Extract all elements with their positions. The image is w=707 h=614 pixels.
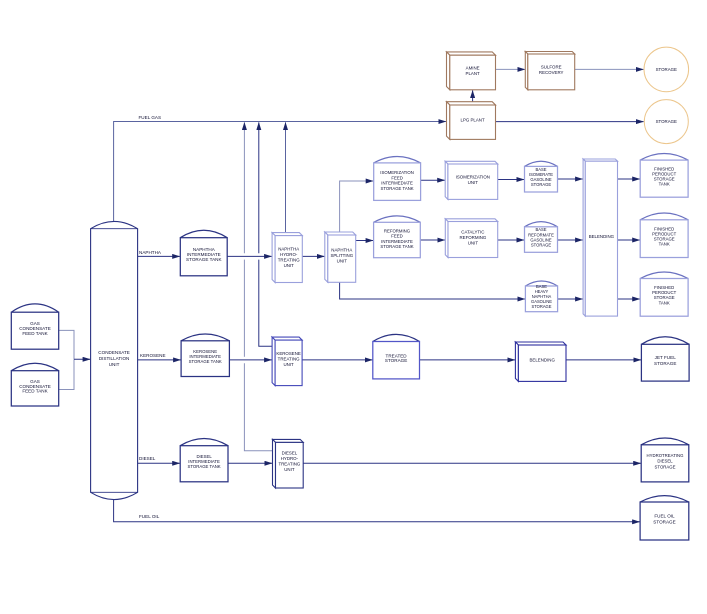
svg-text:NAPHTHA: NAPHTHA <box>278 246 299 251</box>
wire naphtha hydrotreater to fuel gas header <box>285 122 287 232</box>
wire sulfur recovery to storage circle 1 <box>575 68 644 70</box>
plant LPG PLANT <box>447 102 496 140</box>
svg-text:UNIT: UNIT <box>468 180 479 185</box>
tank KEROSENE INTERMEDIATE STORAGE TANK <box>181 334 229 377</box>
unit BELENDING (gasoline blending) <box>583 159 617 316</box>
svg-text:STORAGE TANK: STORAGE TANK <box>187 464 220 469</box>
wire diesel hydrotreater to diesel storage <box>303 462 641 464</box>
svg-text:STORAGE: STORAGE <box>531 242 551 247</box>
svg-text:DIESEL: DIESEL <box>657 459 673 464</box>
svg-text:UNIT: UNIT <box>284 467 295 472</box>
wire splitter to reforming feed tank <box>356 240 374 242</box>
wire diesel tank to hydrotreating unit <box>228 462 272 464</box>
svg-text:UNIT: UNIT <box>337 258 348 263</box>
wire catalytic reforming unit to base reformate storage <box>498 239 524 241</box>
wire hydrotreater to splitting unit <box>302 255 324 257</box>
unit DIESEL HYDRO-TREATING UNIT <box>273 439 304 488</box>
svg-text:DISTILLATION: DISTILLATION <box>99 356 130 361</box>
svg-text:STORAGE: STORAGE <box>656 67 677 72</box>
svg-text:KEROSENE: KEROSENE <box>276 351 300 356</box>
svg-text:TREATING: TREATING <box>278 462 300 467</box>
svg-text:STORAGE: STORAGE <box>656 119 677 124</box>
svg-text:NAPHTHA: NAPHTHA <box>139 250 162 255</box>
svg-text:UNIT: UNIT <box>468 241 479 246</box>
svg-text:KEROSENE: KEROSENE <box>140 353 166 358</box>
storage circle 1 (sulfur) <box>644 47 689 92</box>
svg-text:UNIT: UNIT <box>283 362 294 367</box>
wire blending to finished product tank 3 <box>618 298 640 300</box>
svg-text:HYDRO-: HYDRO- <box>281 456 299 461</box>
tank FINISHED PERODUCT STORAGE TANK 3 <box>640 272 688 316</box>
wire feed tank 1 to junction <box>59 330 74 359</box>
unit ISOMERIZATION UNIT <box>445 161 498 199</box>
wire amine plant to sulfur recovery <box>496 68 525 70</box>
wire blending to finished product tank 2 <box>618 239 640 241</box>
tank NAPHTHA INTERMEDIATE STORAGE TANK <box>180 230 227 276</box>
wire treated storage to blending <box>420 359 516 361</box>
unit CATALYTIC REFORMING UNIT <box>445 219 497 258</box>
unit KEROSENE TREATING UNIT <box>272 337 302 386</box>
wire LPG plant to storage circle 2 <box>496 121 644 123</box>
wire feed tank 2 to junction <box>59 359 74 389</box>
svg-text:TANK: TANK <box>659 242 670 247</box>
plant AMINE PLANT <box>447 52 496 90</box>
svg-text:STORAGE TANK: STORAGE TANK <box>189 359 222 364</box>
wire column to naphtha tank <box>138 255 180 257</box>
svg-text:UNIT: UNIT <box>109 362 120 367</box>
wire base heavy naphtha storage to blending <box>558 298 583 300</box>
svg-text:STORAGE TANK: STORAGE TANK <box>380 244 413 249</box>
svg-text:FEED TANK: FEED TANK <box>22 331 48 336</box>
unit NAPHTHA SPLITTING UNIT <box>325 232 356 282</box>
tank TREATED STORAGE <box>373 334 420 379</box>
unit BELENDING (jet fuel blending) <box>515 342 566 381</box>
wire base reformate storage to blending <box>558 239 583 241</box>
svg-text:FUEL GAS: FUEL GAS <box>139 115 162 120</box>
tank HYDROTREATING DIESEL STORAGE <box>641 438 689 482</box>
svg-text:HYDRO-: HYDRO- <box>280 252 298 257</box>
svg-text:STORAGE: STORAGE <box>653 519 675 524</box>
svg-text:ISOMERIZATION: ISOMERIZATION <box>456 175 490 180</box>
svg-text:DIESEL: DIESEL <box>139 456 156 461</box>
tank ISOMERIZATION FEED INTERMEDIATE STORAGE TANK <box>374 157 421 201</box>
plant SULFORE RECOVERY <box>525 52 574 90</box>
svg-text:TREATING: TREATING <box>278 357 300 362</box>
column CONDENSATE DISTILLATION UNIT <box>91 221 138 499</box>
svg-text:STORAGE: STORAGE <box>654 361 676 366</box>
svg-text:NAPHTHA: NAPHTHA <box>331 247 352 252</box>
tank FINISHED PERODUCT STORAGE TANK 1 <box>640 154 688 198</box>
wire naphtha tank to hydrotreating unit <box>227 255 272 257</box>
svg-text:STORAGE TANK: STORAGE TANK <box>186 257 222 262</box>
svg-text:SPLITTING: SPLITTING <box>330 253 353 258</box>
svg-text:FUEL OIL: FUEL OIL <box>654 514 675 519</box>
storage circle 2 (LPG) <box>644 100 688 144</box>
wire base isomerate storage to blending <box>558 178 583 180</box>
wire kerosene tank to treating unit <box>229 359 271 361</box>
wire kerosene treating unit to fuel gas header (upper part, arrow) <box>258 122 260 253</box>
wire kerosene treating unit to fuel gas header (lower part) <box>259 260 272 347</box>
wire splitter to base heavy naphtha storage <box>340 282 525 299</box>
svg-text:LPG PLANT: LPG PLANT <box>461 118 485 123</box>
wire blending to finished product tank 1 <box>618 178 640 180</box>
tank BASE HEAVY NAPHTHA GASOLINE STORAGE <box>525 281 557 312</box>
svg-text:UNIT: UNIT <box>284 263 295 268</box>
svg-text:FEED TANK: FEED TANK <box>22 389 48 394</box>
wire column bottom to fuel oil storage <box>114 499 640 522</box>
svg-text:DIESEL: DIESEL <box>282 451 298 456</box>
svg-text:CONDENSATE: CONDENSATE <box>98 350 130 355</box>
svg-text:TREATING: TREATING <box>278 257 300 262</box>
wire diesel hydrotreater to fuel gas header (middle part) <box>243 260 245 357</box>
wire isomerization unit to base isomerate storage <box>498 179 524 181</box>
wire column to diesel tank <box>138 462 180 464</box>
svg-text:STORAGE: STORAGE <box>655 465 676 470</box>
svg-text:FUEL OIL: FUEL OIL <box>139 514 160 519</box>
tank JET FUEL STORAGE <box>641 337 689 381</box>
svg-text:RECOVERY: RECOVERY <box>539 70 564 75</box>
tank GAS CONDENSATE FEED TANK 2 <box>11 363 58 406</box>
unit NAPHTHA HYDRO-TREATING UNIT <box>272 233 302 283</box>
wire blending to jet fuel storage <box>566 359 641 361</box>
svg-text:TANK: TANK <box>659 182 670 187</box>
svg-text:TANK: TANK <box>659 300 670 305</box>
svg-text:SULFORE: SULFORE <box>541 65 562 70</box>
wire LPG plant to amine plant <box>472 90 474 105</box>
tank BASE ISOMERATE GASOLINE STORAGE <box>525 161 558 192</box>
svg-text:HYDROTREATING: HYDROTREATING <box>647 453 685 458</box>
tank FUEL OIL STORAGE <box>640 496 689 540</box>
tank REFORMING FEED INTERMEDIATE STORAGE TANK <box>374 216 421 258</box>
svg-text:CATALYTIC: CATALYTIC <box>461 230 484 235</box>
wire splitter to isomerization feed tank <box>340 181 374 232</box>
tank BASE REFORMATE GASOLINE STORAGE <box>525 222 558 253</box>
wire fuel gas header from column top to LPG plant <box>114 122 446 223</box>
svg-text:STORAGE: STORAGE <box>532 304 552 309</box>
wire diesel hydrotreater to fuel gas header (upper part, arrow) <box>243 122 245 253</box>
svg-text:BELENDING: BELENDING <box>589 234 615 239</box>
tank GAS CONDENSATE FEED TANK 1 <box>11 304 58 349</box>
svg-text:STORAGE: STORAGE <box>385 358 407 363</box>
svg-text:AMINE: AMINE <box>466 65 480 70</box>
svg-text:PLANT: PLANT <box>466 71 480 76</box>
wire junction to distillation column <box>74 358 90 360</box>
tank DIESEL INTERMEDIATE STORAGE TANK <box>180 439 228 482</box>
svg-text:BELENDING: BELENDING <box>530 357 556 362</box>
wire diesel hydrotreater to fuel gas header (lower part) <box>244 363 272 451</box>
wire iso feed tank to isomerization unit <box>421 179 445 181</box>
svg-text:JET FUEL: JET FUEL <box>655 355 677 360</box>
wire column to kerosene tank <box>138 359 181 361</box>
tank FINISHED PERODUCT STORAGE TANK 2 <box>640 213 688 258</box>
wire reforming feed tank to catalytic reforming unit <box>420 239 445 241</box>
svg-text:STORAGE TANK: STORAGE TANK <box>380 186 413 191</box>
wire treating unit to treated storage <box>302 359 372 361</box>
svg-text:REFORMING: REFORMING <box>459 235 486 240</box>
svg-text:STORAGE: STORAGE <box>531 182 551 187</box>
